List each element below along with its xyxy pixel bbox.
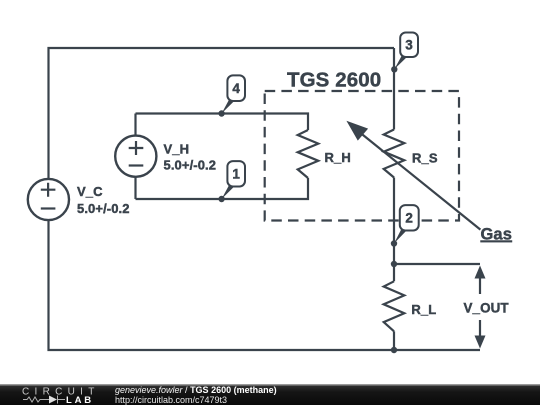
svg-text:Gas: Gas: [481, 226, 513, 244]
wire top-left loop: [49, 48, 395, 178]
V_OUT arrow head bottom: [475, 336, 486, 349]
wire left-bottom and bottom: [49, 221, 481, 351]
svg-text:5.0+/-0.2: 5.0+/-0.2: [164, 158, 217, 173]
junction dot bottom: [391, 347, 397, 353]
resistor R_S: [384, 130, 405, 178]
wire H-loop bottom: [136, 178, 309, 199]
node label 2 box: [400, 205, 419, 230]
wire R_S branch top lead: [393, 48, 395, 130]
footer bar: [0, 384, 540, 405]
svg-text:LAB: LAB: [66, 395, 94, 405]
gas arrow shaft: [361, 133, 480, 229]
node dot 2: [391, 240, 397, 246]
svg-text:4: 4: [232, 81, 240, 96]
svg-text:V_C: V_C: [77, 184, 103, 199]
svg-text:3: 3: [405, 38, 413, 53]
svg-text:TGS 2600: TGS 2600: [287, 69, 381, 92]
node label 3 box: [400, 33, 418, 58]
wire V_OUT top stub: [394, 263, 480, 265]
V_C minus sign: [41, 207, 56, 209]
resistor R_H: [298, 130, 319, 178]
svg-text:R_H: R_H: [325, 150, 351, 165]
circuitlab logo: [0, 384, 110, 405]
dashed box TGS 2600: [265, 91, 459, 221]
label 3 tail: [394, 56, 407, 70]
svg-text:V_OUT: V_OUT: [464, 301, 510, 316]
svg-text:1: 1: [232, 167, 240, 182]
voltage source V_H circle: [115, 136, 156, 177]
label 4 tail: [222, 100, 235, 114]
V_OUT arrow lines: [479, 277, 481, 336]
node dot 4: [218, 110, 224, 116]
svg-text:2: 2: [405, 211, 413, 226]
node dot 1: [218, 196, 224, 202]
wire R_S to R_L: [393, 178, 395, 282]
node label 1 box: [227, 161, 245, 186]
voltage source V_C circle: [28, 179, 69, 220]
resistor R_L: [384, 281, 405, 331]
V_OUT arrow head top: [475, 266, 486, 279]
gas arrow head: [346, 121, 368, 141]
junction dot vout: [391, 261, 397, 267]
wire R_L bottom lead: [393, 331, 395, 350]
wire H-loop top: [136, 114, 309, 131]
V_H plus sign: [129, 141, 144, 155]
svg-text:R_S: R_S: [412, 151, 438, 166]
label 2 tail: [394, 229, 407, 243]
V_C plus sign: [41, 183, 56, 197]
svg-text:V_H: V_H: [164, 142, 190, 157]
wire V_H left leads: [134, 114, 136, 200]
node dot 3: [391, 66, 397, 72]
label 1 tail: [222, 185, 235, 199]
V_H minus sign: [129, 164, 144, 166]
svg-text:5.0+/-0.2: 5.0+/-0.2: [77, 201, 130, 216]
node label 4 box: [227, 75, 245, 101]
svg-text:R_L: R_L: [411, 302, 436, 317]
